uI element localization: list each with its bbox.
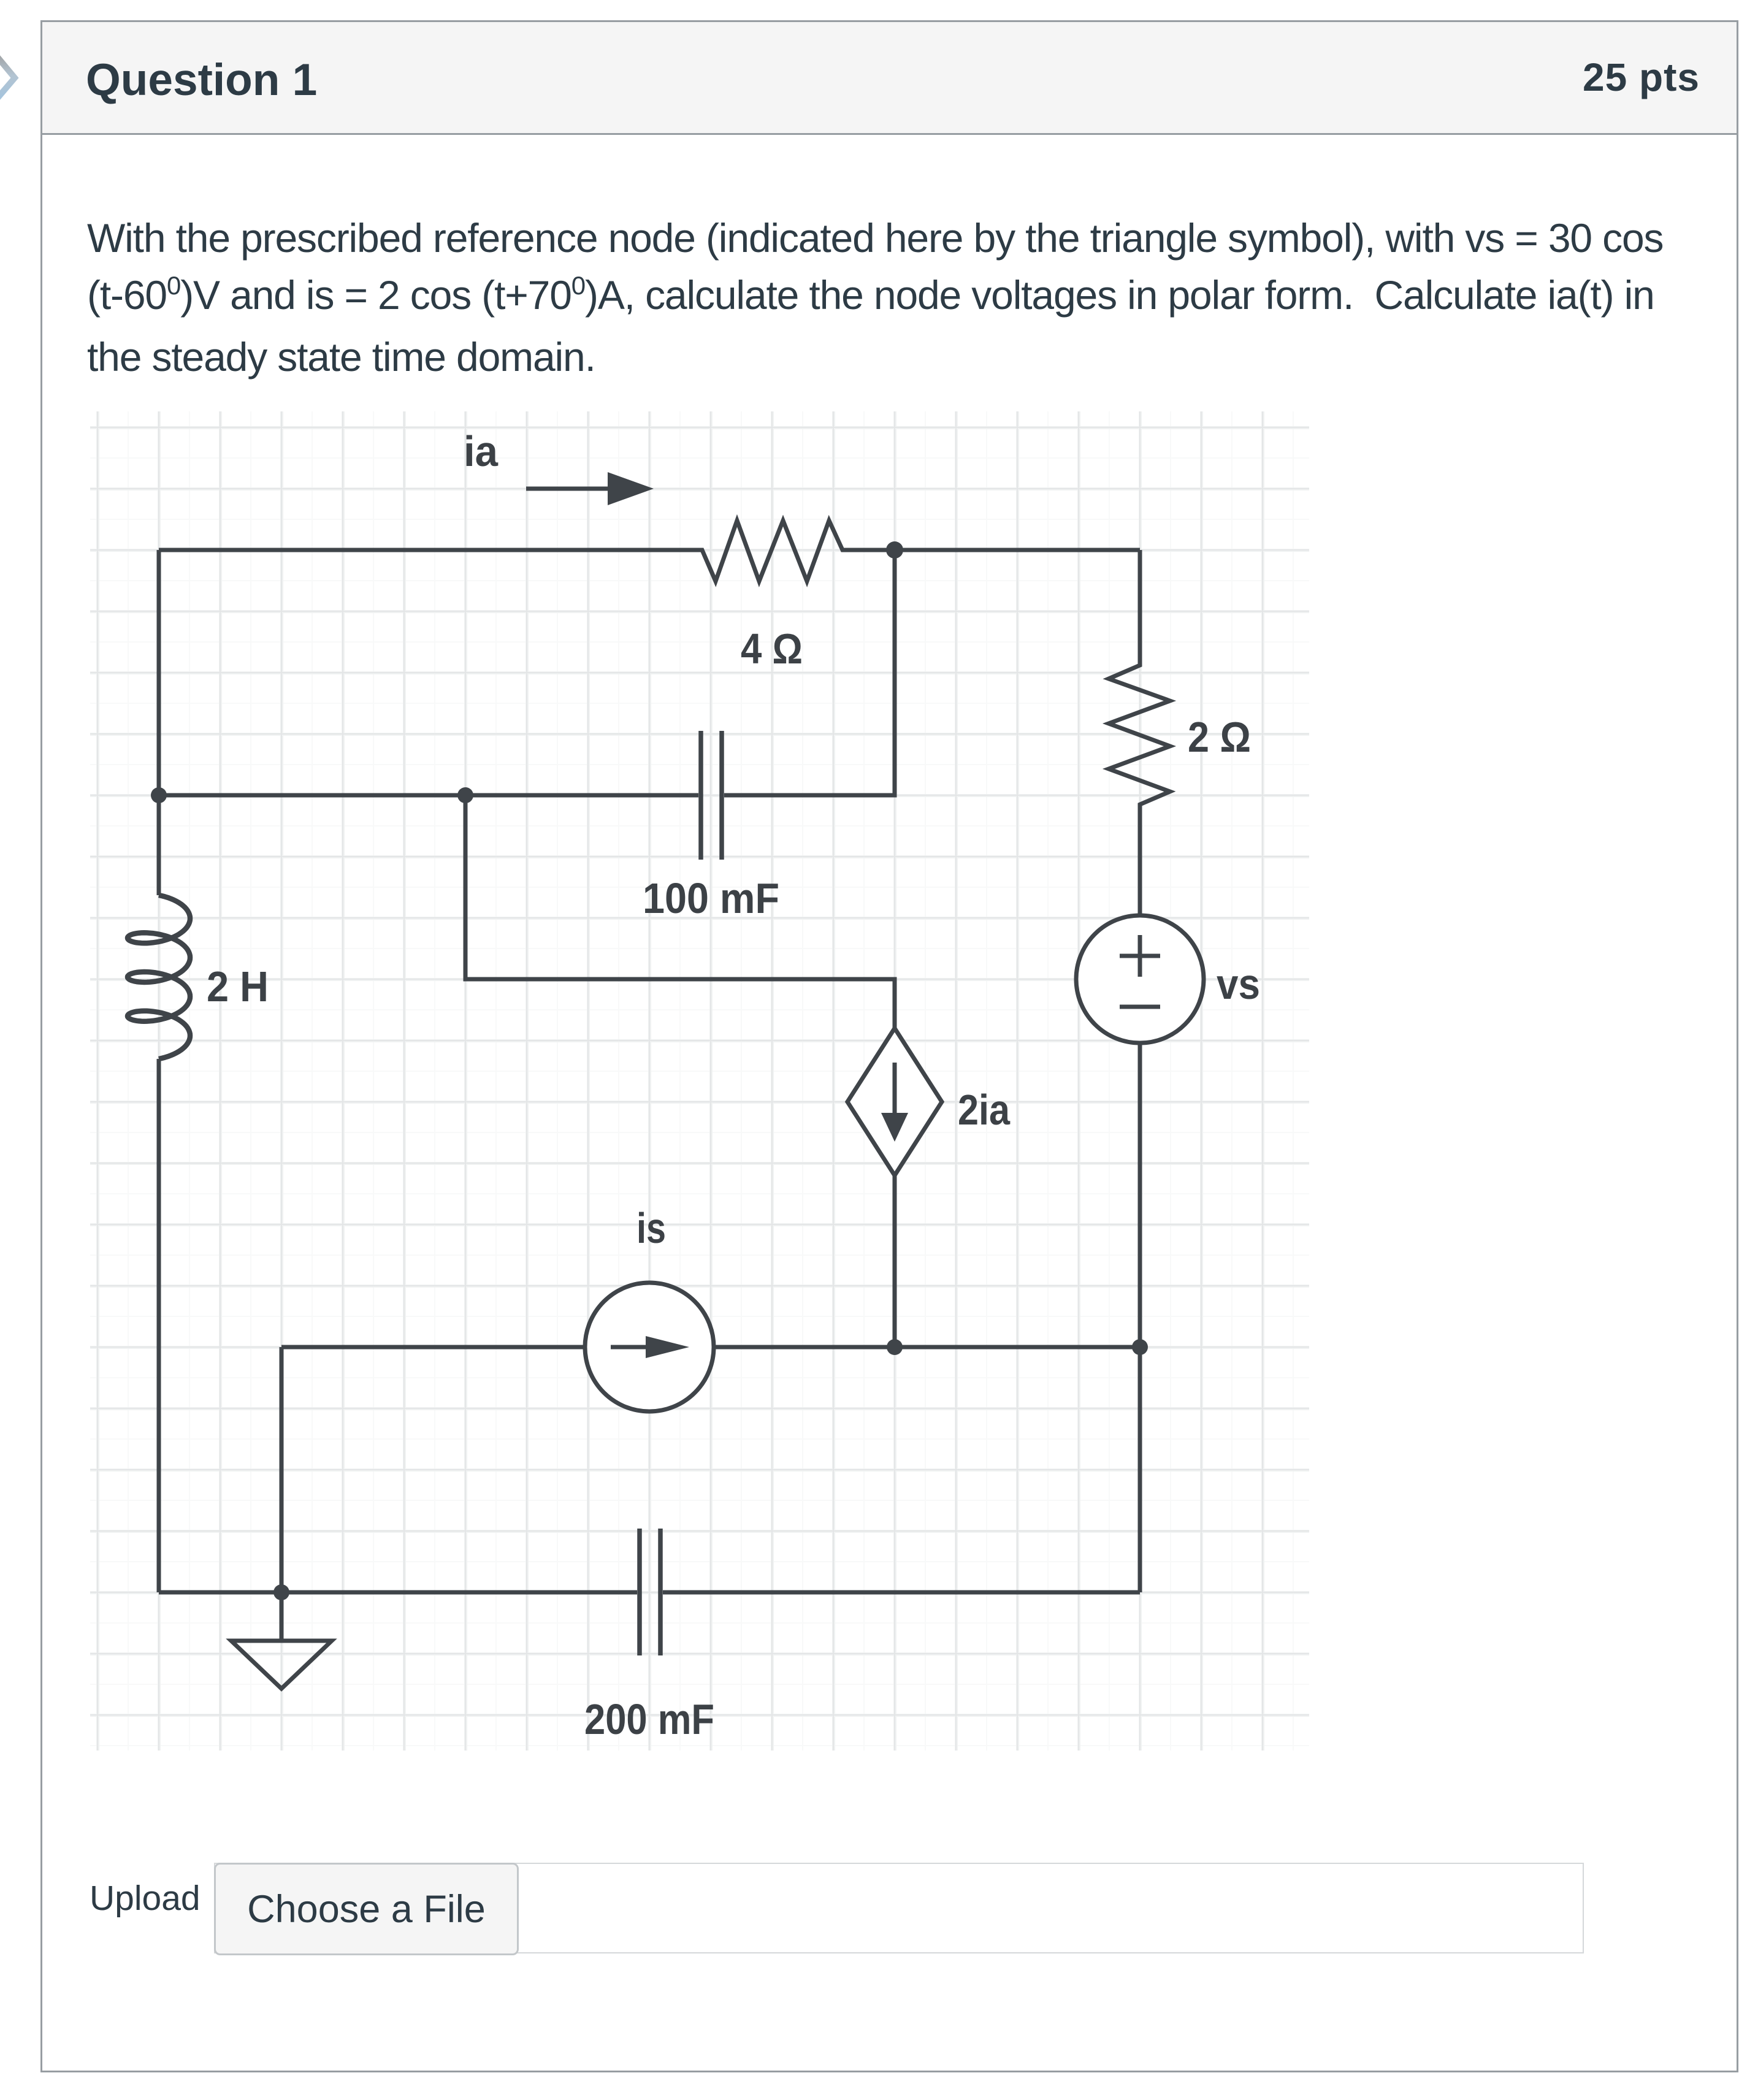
svg-text:vs: vs bbox=[1217, 960, 1260, 1008]
svg-text:100 mF: 100 mF bbox=[643, 874, 779, 922]
svg-text:2ia: 2ia bbox=[958, 1086, 1011, 1134]
svg-text:ia: ia bbox=[464, 427, 499, 475]
svg-text:200 mF: 200 mF bbox=[584, 1695, 714, 1743]
svg-text:2 H: 2 H bbox=[207, 963, 269, 1010]
svg-text:2 Ω: 2 Ω bbox=[1188, 713, 1251, 761]
svg-text:is: is bbox=[636, 1204, 666, 1252]
svg-text:4 Ω: 4 Ω bbox=[741, 625, 803, 673]
